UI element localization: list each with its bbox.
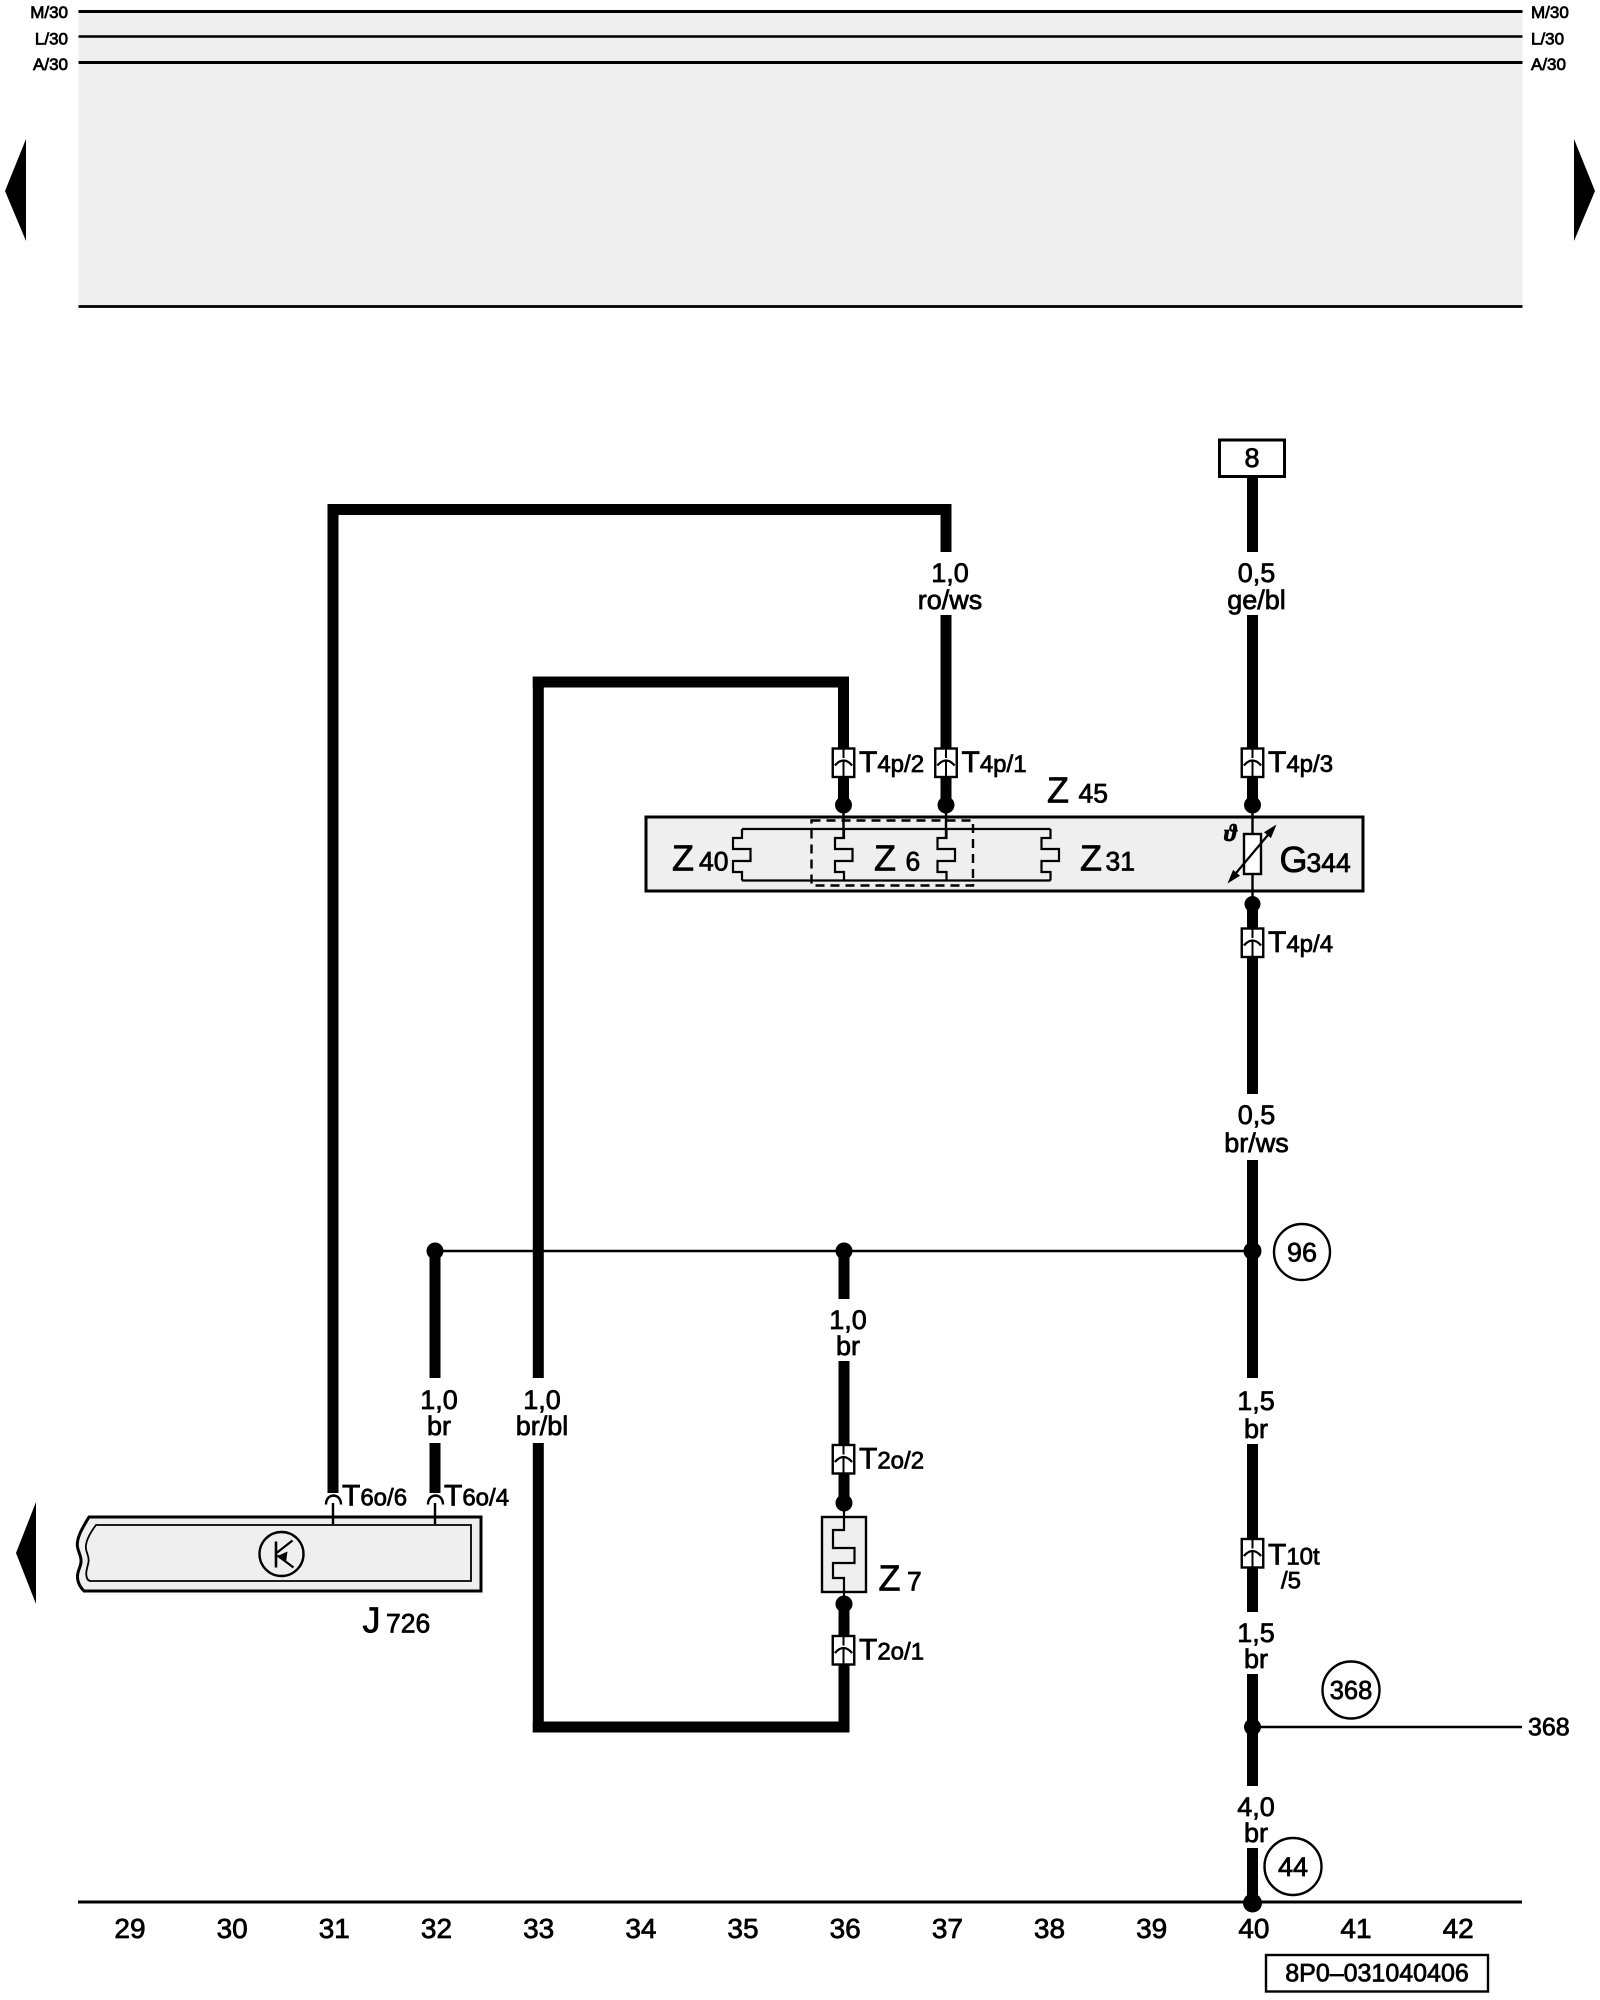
svg-text:T6o/6: T6o/6 <box>342 1480 407 1513</box>
junction node ground col 32 <box>427 1243 444 1260</box>
right continuation arrow (top) <box>1574 139 1595 241</box>
svg-text:39: 39 <box>1136 1913 1167 1944</box>
svg-text:ϑ: ϑ <box>1224 821 1238 847</box>
wire stub below T4p/3 <box>1247 776 1258 801</box>
heater element end castellation right <box>1042 829 1060 881</box>
control module J726 box <box>77 1517 481 1591</box>
junction node T4p/2 / Z45 <box>835 797 852 814</box>
bus area bottom edge <box>79 305 1523 308</box>
ground reference circle 96 <box>1274 1224 1330 1280</box>
svg-text:ro/ws: ro/ws <box>918 585 983 615</box>
heater element end castellation left <box>733 829 751 881</box>
junction node Z7 bottom <box>836 1596 853 1613</box>
svg-text:31: 31 <box>319 1913 350 1944</box>
left continuation arrow (top) <box>5 139 26 241</box>
wire T4p/1 upper segment <box>941 504 952 552</box>
svg-text:A/30: A/30 <box>33 55 68 74</box>
svg-text:0,5: 0,5 <box>1238 1100 1276 1130</box>
heater element body top edge <box>742 828 1051 830</box>
svg-text:T4p/2: T4p/2 <box>859 746 924 779</box>
svg-text:32: 32 <box>421 1913 452 1944</box>
svg-text:40: 40 <box>699 847 728 877</box>
svg-text:br: br <box>427 1411 451 1441</box>
svg-text:br: br <box>836 1331 860 1361</box>
wire node 96 to T6o/4 lower <box>430 1443 441 1493</box>
wire segment to node 368 <box>1247 1674 1258 1786</box>
svg-text:J: J <box>363 1600 381 1641</box>
svg-text:M/30: M/30 <box>30 3 68 22</box>
wire br/bl vertical at col 33 lower <box>533 1443 544 1733</box>
wire segment to ground point 44 <box>1247 1848 1258 1903</box>
pin line G344 to Z45 bottom <box>1251 874 1253 899</box>
connector T10t/5 <box>1242 1539 1264 1568</box>
wire T4p/1 lower segment <box>941 615 952 750</box>
svg-text:M/30: M/30 <box>1531 3 1569 22</box>
junction node Z45 / T4p/4 <box>1245 896 1261 912</box>
wire br/bl vertical at col 33 upper <box>533 677 544 1379</box>
component box Z7 <box>822 1517 866 1592</box>
pin line T4p/3 into Z45 <box>1251 805 1253 834</box>
svg-text:T2o/1: T2o/1 <box>859 1634 924 1667</box>
svg-text:37: 37 <box>932 1913 963 1944</box>
connector T4p/1 <box>935 749 957 778</box>
svg-text:1,5: 1,5 <box>1237 1386 1275 1416</box>
junction node 368 <box>1244 1719 1261 1736</box>
svg-text:T4p/1: T4p/1 <box>962 746 1027 779</box>
svg-text:br/ws: br/ws <box>1224 1128 1289 1158</box>
left continuation arrow (J726 row) <box>16 1502 36 1604</box>
dashed boundary of Z6 <box>812 821 974 886</box>
svg-text:368: 368 <box>1528 1714 1570 1742</box>
svg-text:A/30: A/30 <box>1531 55 1566 74</box>
svg-text:T4p/4: T4p/4 <box>1268 926 1333 959</box>
wire T2o/2 to Z7 <box>839 1472 850 1503</box>
wire 8 to T4p/3 lower segment <box>1247 615 1258 750</box>
wire bottom horizontal run at y1727 <box>533 1722 850 1733</box>
terminal designation box 8 <box>1220 440 1285 477</box>
wire T6o/6 to T4p/1 vertical at col 31 <box>328 504 339 1493</box>
svg-text:T2o/2: T2o/2 <box>859 1443 924 1476</box>
ground bus thin line node 96 <box>435 1250 1252 1252</box>
svg-text:40: 40 <box>1238 1913 1269 1944</box>
wire T4p/2 vertical <box>838 677 849 750</box>
svg-text:br: br <box>1244 1818 1268 1848</box>
wire node 96 to T2o/2 lower <box>839 1361 850 1446</box>
svg-text:38: 38 <box>1034 1913 1065 1944</box>
svg-text:Z: Z <box>1047 770 1069 811</box>
junction node Z7 top <box>836 1495 853 1512</box>
svg-text:41: 41 <box>1340 1913 1371 1944</box>
wire node 96 to T6o/4 upper <box>430 1251 441 1378</box>
wire reference circle 368 <box>1323 1662 1380 1719</box>
temperature sensor G344 (variable resistor) <box>1224 821 1277 884</box>
svg-text:344: 344 <box>1307 848 1351 878</box>
junction node T4p/3 / Z45 <box>1244 797 1261 814</box>
wire segment to T10t/5 <box>1247 1444 1258 1540</box>
connector T2o/1 <box>833 1636 855 1665</box>
diagram number box <box>1266 1955 1488 1992</box>
wire Z7 to T2o/1 <box>839 1604 850 1637</box>
svg-text:T4p/3: T4p/3 <box>1268 746 1333 779</box>
svg-text:726: 726 <box>386 1609 430 1639</box>
svg-text:36: 36 <box>830 1913 861 1944</box>
svg-text:8: 8 <box>1244 443 1259 473</box>
connector T2o/2 <box>833 1445 855 1474</box>
wire segment to node 96 <box>1247 1160 1258 1378</box>
wire node 96 to T2o/2 upper <box>839 1251 850 1299</box>
heater element Z7 zigzag <box>833 1511 855 1603</box>
svg-text:45: 45 <box>1079 779 1108 809</box>
current track numbers 29-42 <box>114 1913 1473 1944</box>
wire stub below T4p/2 <box>838 776 849 801</box>
svg-text:br: br <box>1244 1414 1268 1444</box>
control module J726 inner box <box>86 1525 471 1581</box>
svg-text:7: 7 <box>907 1567 922 1597</box>
junction node T4p/1 / Z45 <box>938 797 955 814</box>
thin line node 368 <box>1252 1726 1522 1728</box>
pin line T4p/2 into Z45 <box>842 805 844 838</box>
svg-text:33: 33 <box>523 1913 554 1944</box>
svg-text:br/bl: br/bl <box>516 1411 569 1441</box>
wire 8 to T4p/3 upper segment <box>1247 477 1258 552</box>
heater element body bottom edge <box>742 879 1051 881</box>
bus rail A/30 <box>33 55 1566 74</box>
component box Z45 <box>646 817 1363 891</box>
svg-text:34: 34 <box>625 1913 656 1944</box>
connector T4p/2 <box>833 749 855 778</box>
svg-text:8P0–031040406: 8P0–031040406 <box>1285 1960 1469 1988</box>
svg-text:L/30: L/30 <box>1531 30 1564 49</box>
wire T4p/4 to node <box>1247 908 1258 930</box>
junction node ground col 40 <box>1244 1242 1262 1260</box>
ground reference circle 44 <box>1265 1838 1322 1895</box>
svg-text:96: 96 <box>1287 1238 1317 1268</box>
svg-text:Z: Z <box>672 838 694 879</box>
pin line T4p/1 into Z45 <box>945 805 947 838</box>
svg-text:44: 44 <box>1278 1852 1308 1882</box>
junction node ground col 36 <box>836 1243 853 1260</box>
svg-text:1,0: 1,0 <box>931 558 969 588</box>
current track base line <box>78 1901 1522 1904</box>
heater element castellation Z6/Z31 <box>938 829 956 881</box>
wire stub below T4p/1 <box>941 776 952 801</box>
bus area background <box>79 11 1523 307</box>
bus rail M/30 <box>30 3 1569 22</box>
wire T4p/2 horizontal run <box>533 677 849 688</box>
connector end T6o/6 <box>326 1496 341 1505</box>
wire T2o/1 to bottom corner <box>839 1664 850 1733</box>
connector end T6o/4 <box>428 1496 443 1505</box>
svg-text:G: G <box>1280 839 1308 880</box>
svg-text:T6o/4: T6o/4 <box>444 1480 509 1513</box>
svg-text:L/30: L/30 <box>35 30 68 49</box>
svg-text:ge/bl: ge/bl <box>1227 585 1286 615</box>
wire T10t/5 down segment <box>1247 1566 1258 1612</box>
svg-text:/5: /5 <box>1281 1568 1301 1595</box>
wire T4p/4 down segment 1 <box>1247 956 1258 1094</box>
svg-text:br: br <box>1244 1644 1268 1674</box>
pin line T6o/6 into J726 <box>332 1503 334 1524</box>
connector T4p/3 <box>1242 749 1264 778</box>
connector T4p/4 <box>1242 929 1264 958</box>
svg-text:Z: Z <box>1080 838 1102 879</box>
pin line T6o/4 into J726 <box>434 1503 436 1524</box>
heater element castellation Z40/Z6 <box>835 829 853 881</box>
svg-text:0,5: 0,5 <box>1238 558 1276 588</box>
bus rail L/30 <box>35 30 1564 49</box>
output stage symbol in J726 <box>260 1532 304 1576</box>
svg-text:368: 368 <box>1330 1677 1373 1705</box>
svg-text:29: 29 <box>114 1913 145 1944</box>
svg-text:6: 6 <box>906 847 921 877</box>
svg-text:31: 31 <box>1106 847 1135 877</box>
svg-text:35: 35 <box>727 1913 758 1944</box>
svg-text:42: 42 <box>1443 1913 1474 1944</box>
wire T6o/6 to T4p/1 horizontal run <box>328 504 952 515</box>
svg-text:30: 30 <box>217 1913 248 1944</box>
svg-text:Z: Z <box>874 838 896 879</box>
svg-text:Z: Z <box>879 1558 901 1599</box>
junction node ground point 44 <box>1243 1894 1262 1913</box>
